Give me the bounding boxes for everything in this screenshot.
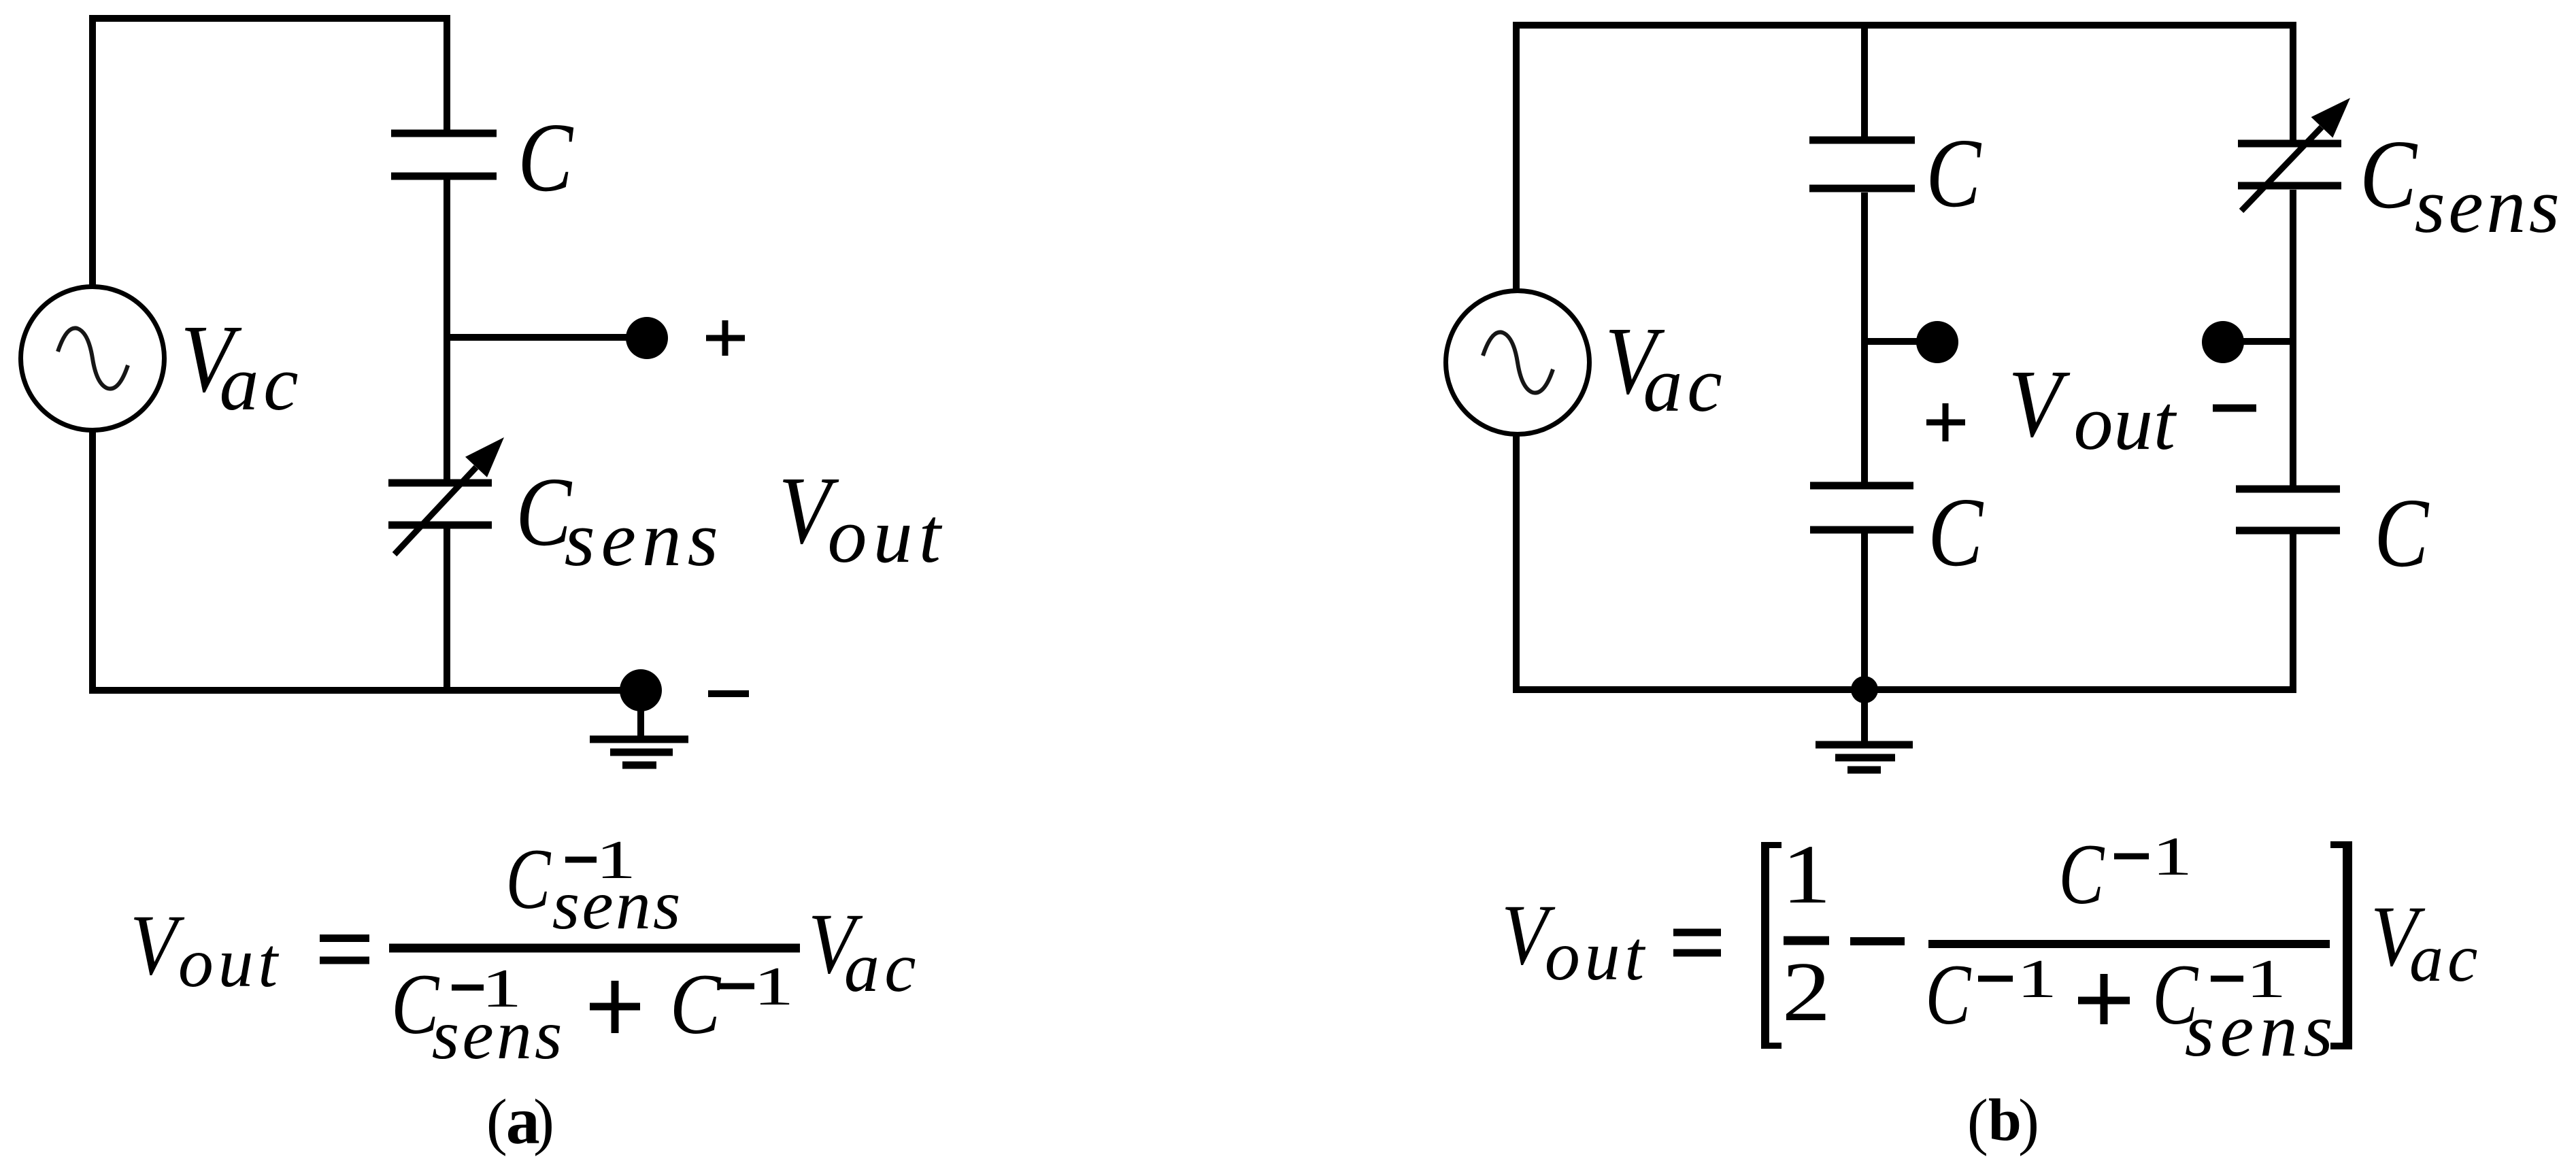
svg-text:): ) xyxy=(2018,1087,2039,1157)
wire: below Csens down to bottom rail (a) xyxy=(444,528,450,694)
formula a: denominator superscript -1 xyxy=(452,959,522,1019)
wire: output tap to + node (a) xyxy=(447,334,633,341)
formula b: denominator superscript -1 xyxy=(1978,949,2057,1009)
sine symbol of source (b) xyxy=(1483,332,1553,392)
output node dot + (a) xyxy=(626,317,668,359)
capacitor C bottom middle (b): bottom plate xyxy=(1810,526,1913,534)
wire: middle branch top segment (b) xyxy=(1861,25,1868,137)
arrow shaft of Csens (a) xyxy=(395,467,476,554)
svg-text:(: ( xyxy=(486,1087,507,1157)
svg-text:out: out xyxy=(828,492,948,579)
svg-text:sens: sens xyxy=(432,996,565,1074)
svg-text:C: C xyxy=(2360,120,2418,229)
wire: middle branch between capacitors (b) xyxy=(1861,192,1868,482)
svg-text:1: 1 xyxy=(753,957,794,1017)
variable capacitor Csens (a): bottom plate xyxy=(388,522,492,529)
formula a: fraction bar xyxy=(389,944,800,953)
svg-text:sens: sens xyxy=(2415,163,2563,250)
minus sign (a) xyxy=(708,690,749,697)
svg-text:ac: ac xyxy=(1643,341,1727,428)
svg-text:out: out xyxy=(1545,917,1649,995)
wire: middle branch lower segment (b) xyxy=(1861,533,1868,690)
wire: left bottom segment and bottom rail (b) xyxy=(1516,434,2293,690)
ground bar 1 (a) xyxy=(590,736,688,743)
svg-text:V: V xyxy=(2008,350,2071,457)
capacitor C top middle (b): top plate xyxy=(1809,137,1915,144)
svg-text:C: C xyxy=(2374,479,2430,588)
formula a: numerator superscript -1 xyxy=(565,830,636,890)
plus sign (a) xyxy=(706,320,745,356)
svg-text:C: C xyxy=(1928,478,1984,587)
wire: stub from - node to right branch (b) xyxy=(2238,338,2293,345)
output node dot - (b) xyxy=(2202,321,2244,363)
svg-text:1: 1 xyxy=(2016,949,2057,1009)
capacitor C (a): bottom plate xyxy=(391,173,497,180)
svg-text:sens: sens xyxy=(552,866,683,944)
svg-text:C: C xyxy=(670,957,722,1052)
formula b: numerator superscript -1 xyxy=(2114,827,2192,887)
formula b: equals sign xyxy=(1673,932,1721,953)
formula a: equals sign xyxy=(320,939,369,961)
arrow head of Csens (a) xyxy=(465,437,504,477)
arrow head of Csens (b) xyxy=(2311,98,2350,138)
svg-text:ac: ac xyxy=(220,340,303,427)
svg-text:b: b xyxy=(1988,1088,2022,1153)
svg-text:sens: sens xyxy=(565,496,724,583)
formula a: denominator second superscript -1 xyxy=(720,957,794,1017)
formula b: binary minus xyxy=(1850,937,1905,945)
plus sign (b) xyxy=(1926,403,1965,441)
formula a: plus sign xyxy=(590,981,640,1033)
arrow shaft of Csens (b) xyxy=(2241,127,2322,211)
formula b: fraction bar xyxy=(1928,940,2330,948)
formula b: small fraction bar xyxy=(1784,937,1829,945)
svg-text:1: 1 xyxy=(2152,827,2192,887)
svg-text:out: out xyxy=(178,924,282,1002)
wire: right branch between Csens and C (b) xyxy=(2290,190,2296,486)
AC source circle Vac (a) xyxy=(21,287,165,431)
svg-text:1: 1 xyxy=(1782,828,1831,921)
AC source circle Vac (b) xyxy=(1446,291,1590,435)
output node dot - (a) xyxy=(620,669,662,711)
ground bar 3 (a) xyxy=(622,762,656,769)
svg-text:C: C xyxy=(518,103,574,212)
junction node dot (b) xyxy=(1851,676,1878,703)
variable capacitor Csens (a): top plate xyxy=(388,479,492,487)
sine symbol of source (a) xyxy=(58,328,128,388)
capacitor C top middle (b): bottom plate xyxy=(1809,185,1915,192)
capacitor C (a): top plate xyxy=(391,130,497,137)
capacitor C bottom right (b): bottom plate xyxy=(2236,527,2340,535)
svg-text:ac: ac xyxy=(844,928,921,1007)
formula b: left square bracket xyxy=(1761,842,1782,1049)
output node dot + (b) xyxy=(1916,321,1958,363)
svg-text:2: 2 xyxy=(1782,945,1831,1039)
svg-text:(: ( xyxy=(1967,1087,1988,1157)
wire: right branch between C and Csens (a) xyxy=(444,180,450,480)
ground stem (a) xyxy=(637,707,644,739)
formula b: plus sign xyxy=(2078,974,2130,1024)
capacitor C bottom middle (b): top plate xyxy=(1810,482,1913,490)
svg-text:ac: ac xyxy=(2409,920,2481,996)
wire: stub to + node (b) xyxy=(1864,338,1922,345)
wire: top loop of circuit (a) xyxy=(93,18,447,286)
svg-text:C: C xyxy=(1925,947,1971,1043)
ground bar 1 (b) xyxy=(1816,741,1913,749)
svg-text:C: C xyxy=(2058,827,2105,922)
ground stem (b) xyxy=(1861,701,1868,745)
variable capacitor Csens (b): top plate xyxy=(2238,140,2341,148)
variable capacitor Csens (b): bottom plate xyxy=(2238,182,2341,190)
svg-text:): ) xyxy=(533,1087,554,1157)
svg-text:C: C xyxy=(1926,119,1982,228)
svg-text:C: C xyxy=(506,832,552,927)
formula b: right square bracket xyxy=(2330,841,2352,1049)
ground bar 2 (b) xyxy=(1835,754,1895,762)
minus sign (b) xyxy=(2213,405,2256,412)
formula b: denominator second superscript -1 xyxy=(2211,949,2286,1009)
svg-text:V: V xyxy=(130,898,184,993)
capacitor C bottom right (b): top plate xyxy=(2236,486,2340,493)
ground bar 3 (b) xyxy=(1847,766,1881,774)
ground bar 2 (a) xyxy=(610,749,673,756)
wire: left bottom segment and bottom rail (a) xyxy=(93,430,633,690)
svg-text:out: out xyxy=(2074,380,2177,467)
wire: top loop of circuit (b) xyxy=(1516,25,2293,291)
svg-text:sens: sens xyxy=(2185,988,2339,1073)
